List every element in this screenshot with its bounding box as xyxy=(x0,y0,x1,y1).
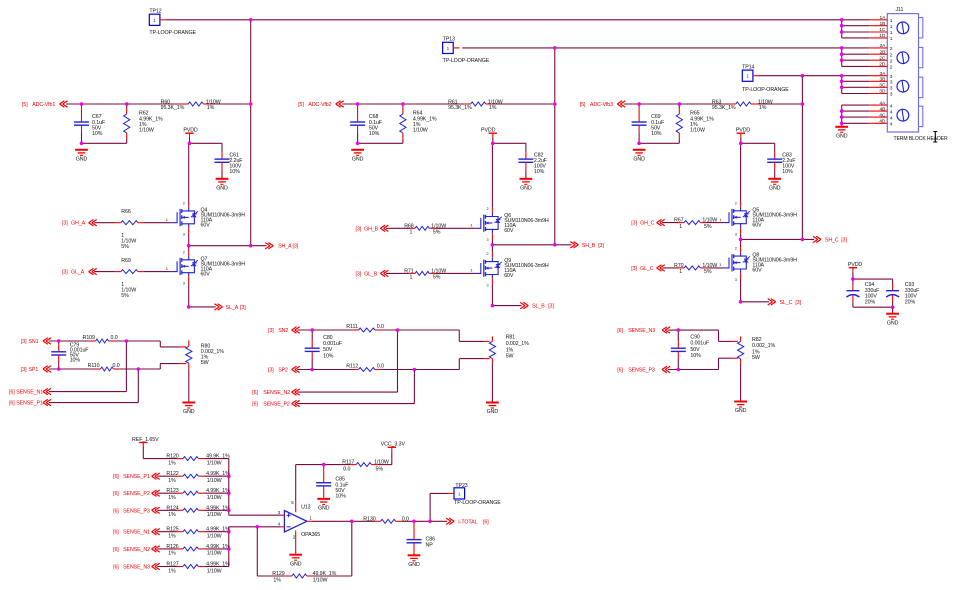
svg-text:R120: R120 xyxy=(166,454,178,460)
power REF_1.65V xyxy=(132,437,159,447)
junction xyxy=(227,509,231,513)
svg-text:1%: 1% xyxy=(168,495,176,501)
transistor Q4 (N-MOSFET) xyxy=(172,201,245,236)
port SENSE_P3 (input) xyxy=(617,366,670,373)
capacitor C61 xyxy=(215,152,230,169)
svg-text:2: 2 xyxy=(890,58,893,64)
resistor R117 xyxy=(350,463,377,467)
svg-text:3C: 3C xyxy=(879,83,886,89)
op-amp U13 OPA365 xyxy=(278,500,313,554)
svg-text:2: 2 xyxy=(735,201,737,205)
svg-text:1%: 1% xyxy=(759,105,767,111)
svg-text:R112: R112 xyxy=(346,364,358,370)
wire kelvin N1 step xyxy=(159,341,161,347)
wire R68 to gate xyxy=(435,227,475,229)
svg-text:TP14: TP14 xyxy=(742,65,754,71)
port SENSE_P1 (input) xyxy=(9,399,51,406)
port SP2 (input) xyxy=(268,366,300,373)
svg-text:1C: 1C xyxy=(879,27,886,33)
port SENSE_P2 (input) xyxy=(113,490,160,497)
wire SENSE_N2 to R126 xyxy=(157,548,177,550)
pin 2B (J11 pin 2) xyxy=(842,49,893,58)
svg-text:R110: R110 xyxy=(88,363,100,369)
svg-text:3: 3 xyxy=(890,86,893,92)
wire xyxy=(638,132,640,143)
wire xyxy=(221,169,223,178)
wire SENSE_N2 riser xyxy=(397,330,399,392)
svg-text:4: 4 xyxy=(890,109,893,115)
junction xyxy=(401,102,405,106)
pin 3C (J11 pin 3) xyxy=(842,83,893,92)
svg-text:GL_A: GL_A xyxy=(71,270,85,276)
svg-text:1%: 1% xyxy=(168,534,176,540)
svg-text:PVDD: PVDD xyxy=(736,128,751,134)
wire xyxy=(719,340,733,342)
wire divider bottom xyxy=(82,142,127,144)
junction xyxy=(840,24,844,28)
svg-text:2D: 2D xyxy=(879,62,886,68)
junction xyxy=(840,122,844,126)
wire R67 to gate xyxy=(706,222,723,224)
junction xyxy=(840,74,844,78)
wire J11 group 4 vertical xyxy=(841,105,843,123)
svg-text:GH_A: GH_A xyxy=(71,221,86,227)
junction xyxy=(137,367,141,371)
junction xyxy=(553,243,557,247)
junction xyxy=(396,328,400,332)
wire xyxy=(311,358,313,369)
wire xyxy=(892,307,894,313)
svg-text:[6]: [6] xyxy=(252,402,258,408)
pin 2A (J11 pin 2) xyxy=(842,43,893,52)
power PVDD phase 2 xyxy=(481,128,497,138)
svg-text:1%: 1% xyxy=(168,460,176,466)
wire Q4 source to SH node xyxy=(188,234,190,246)
wire R117 to VCC xyxy=(378,464,392,466)
svg-text:1/10W: 1/10W xyxy=(207,460,222,466)
svg-text:[6]: [6] xyxy=(113,565,119,571)
wire SENSE_P3 to R124 xyxy=(157,509,177,511)
junction xyxy=(739,142,743,146)
junction xyxy=(227,491,231,495)
svg-text:[3]: [3] xyxy=(548,304,554,310)
svg-text:R130: R130 xyxy=(363,516,375,522)
capacitor C83 xyxy=(767,152,782,169)
svg-text:0.0: 0.0 xyxy=(343,466,350,472)
svg-text:SENSE_N3: SENSE_N3 xyxy=(628,328,655,334)
wire R110 out xyxy=(119,368,160,370)
svg-text:1: 1 xyxy=(153,18,156,23)
junction xyxy=(188,142,192,146)
pin 4A (J11 pin 4) xyxy=(842,100,893,109)
wire SN2 row xyxy=(297,329,352,331)
wire ADC-Vfb1 row xyxy=(66,103,182,105)
svg-text:1/10W: 1/10W xyxy=(139,128,154,134)
svg-text:[5]: [5] xyxy=(580,102,586,108)
wire REF riser xyxy=(142,447,144,459)
junction xyxy=(491,243,495,247)
pin 2C (J11 pin 2) xyxy=(842,55,893,64)
svg-text:R124: R124 xyxy=(166,505,178,511)
svg-text:1: 1 xyxy=(679,269,682,275)
svg-text:GND: GND xyxy=(76,157,88,163)
svg-text:[3]: [3] xyxy=(21,367,27,373)
connector J11 terminal block xyxy=(887,14,923,132)
wire SH node to Q9 drain xyxy=(491,245,493,253)
junction xyxy=(412,520,416,524)
wire xyxy=(311,330,313,341)
wire SL phase 3 xyxy=(741,301,769,303)
resistor R124 xyxy=(177,508,204,512)
svg-text:[3]: [3] xyxy=(795,300,801,306)
svg-text:2: 2 xyxy=(183,201,185,205)
svg-text:SENSE_N3: SENSE_N3 xyxy=(123,565,150,571)
port I-TOTAL (output) xyxy=(446,518,489,525)
svg-text:GND: GND xyxy=(487,409,499,415)
svg-text:SL_C: SL_C xyxy=(780,300,793,306)
svg-text:1/10W: 1/10W xyxy=(207,568,222,574)
wire SH phase 3 xyxy=(741,238,815,240)
svg-text:[6]: [6] xyxy=(113,491,119,497)
wire U13 V+ riser xyxy=(295,465,297,501)
resistor R64 xyxy=(400,108,406,139)
resistor R112 xyxy=(353,368,381,372)
svg-text:0.0: 0.0 xyxy=(113,363,120,369)
svg-text:2A: 2A xyxy=(880,43,887,49)
ground (bulk caps) xyxy=(886,314,899,327)
capacitor C68 xyxy=(350,104,365,133)
wire SENSE_N1 riser xyxy=(125,341,127,392)
port SENSE_N3 (input) xyxy=(113,563,160,570)
ground (under C61) xyxy=(216,179,229,192)
ground (under C69) xyxy=(633,150,646,163)
transistor Q7 (N-MOSFET) xyxy=(172,250,245,285)
svg-text:10%: 10% xyxy=(323,353,334,359)
wire xyxy=(678,104,680,108)
capacitor C90 xyxy=(671,341,686,358)
svg-text:1: 1 xyxy=(447,46,450,51)
svg-text:10%: 10% xyxy=(782,169,793,175)
port SENSE_N2 (input) xyxy=(113,546,160,553)
svg-text:SENSE_P2: SENSE_P2 xyxy=(263,402,290,408)
svg-text:1/10W: 1/10W xyxy=(207,495,222,501)
svg-text:[3]: [3] xyxy=(598,243,604,249)
svg-text:[6]: [6] xyxy=(9,401,15,407)
wire xyxy=(160,363,179,365)
wire GH_C to R67 xyxy=(662,222,678,224)
svg-text:SN2: SN2 xyxy=(278,328,288,334)
wire PVDD rail to Q6 drain xyxy=(491,143,493,207)
wire xyxy=(58,341,60,345)
svg-text:1B: 1B xyxy=(880,21,886,27)
svg-text:[3]: [3] xyxy=(62,221,68,227)
transistor Q9 (N-MOSFET) xyxy=(475,252,548,287)
svg-text:2: 2 xyxy=(487,207,489,211)
svg-text:TP-LOOP-ORANGE: TP-LOOP-ORANGE xyxy=(443,58,490,64)
wire xyxy=(525,143,527,152)
svg-text:10%: 10% xyxy=(534,169,545,175)
svg-text:[5]: [5] xyxy=(298,102,304,108)
svg-text:95.3K_1%: 95.3K_1% xyxy=(161,105,185,111)
junction xyxy=(840,86,844,90)
port SENSE_N3 (input) xyxy=(617,327,670,334)
svg-text:[3]: [3] xyxy=(62,270,68,276)
wire R120 to bus xyxy=(204,458,228,460)
ground (under C82) xyxy=(520,179,533,192)
junction xyxy=(739,238,743,242)
svg-text:GL_C: GL_C xyxy=(640,266,654,272)
svg-text:SH_B: SH_B xyxy=(582,243,596,249)
pin 4B (J11 pin 4) xyxy=(842,106,893,115)
svg-text:1%: 1% xyxy=(168,478,176,484)
resistor R110 xyxy=(95,367,120,371)
wire PVDD rail to Q4 drain xyxy=(188,143,190,202)
svg-text:4A: 4A xyxy=(880,100,887,106)
resistor R80 xyxy=(186,340,192,369)
wire xyxy=(221,143,223,152)
wire R123 to bus xyxy=(204,492,228,494)
wire xyxy=(160,346,179,348)
capacitor C85 xyxy=(316,465,331,498)
svg-text:5%: 5% xyxy=(433,275,441,281)
svg-text:2: 2 xyxy=(183,250,185,254)
resistor R130 xyxy=(375,519,402,523)
wire REF to R120 xyxy=(143,458,177,460)
svg-text:I-TOTAL: I-TOTAL xyxy=(458,519,477,525)
resistor R66 xyxy=(115,221,144,225)
svg-text:[3]: [3] xyxy=(356,226,362,232)
svg-text:2: 2 xyxy=(890,52,893,58)
wire PVDD rail to Q5 drain xyxy=(740,143,742,202)
svg-text:50V: 50V xyxy=(690,347,700,353)
svg-text:[3]: [3] xyxy=(268,328,274,334)
wire SENSE_N2 row xyxy=(297,391,397,393)
junction xyxy=(356,142,360,146)
ground (under C68) xyxy=(351,150,364,163)
wire U13 output xyxy=(312,520,375,522)
svg-text:1%: 1% xyxy=(489,105,497,111)
wire R111 out xyxy=(381,329,459,331)
svg-text:0.002_1%: 0.002_1% xyxy=(506,341,529,347)
svg-text:PVDD: PVDD xyxy=(848,262,863,268)
svg-text:0.002_1%: 0.002_1% xyxy=(752,343,775,349)
resistor R68 xyxy=(409,226,435,230)
resistor R67 xyxy=(678,221,706,225)
svg-text:SENSE_P2: SENSE_P2 xyxy=(123,491,150,497)
svg-text:5%: 5% xyxy=(704,224,712,230)
wire xyxy=(740,137,742,143)
port SN1 (input) xyxy=(21,338,51,345)
svg-text:SENSE_N2: SENSE_N2 xyxy=(123,547,150,553)
wire phase-B output rail xyxy=(554,48,556,245)
resistor R127 xyxy=(177,565,204,569)
svg-text:1/10W: 1/10W xyxy=(207,478,222,484)
wire V+ row xyxy=(296,464,324,466)
junction xyxy=(187,244,191,248)
wire non-inverting bus xyxy=(228,459,230,516)
pin 1C (J11 pin 1) xyxy=(842,27,893,36)
test point TP23 xyxy=(448,488,465,499)
wire xyxy=(313,575,352,577)
junction xyxy=(310,328,314,332)
svg-text:GND: GND xyxy=(352,157,364,163)
wire xyxy=(459,358,484,360)
svg-text:U13: U13 xyxy=(301,505,311,511)
svg-text:ADC-Vfb3: ADC-Vfb3 xyxy=(590,102,613,108)
svg-text:1: 1 xyxy=(746,74,749,79)
wire GL_A to R69 xyxy=(94,271,115,273)
svg-text:60V: 60V xyxy=(504,273,514,279)
wire SH node to Q7 drain xyxy=(188,246,190,251)
svg-text:1: 1 xyxy=(890,18,893,24)
junction xyxy=(677,368,681,372)
svg-text:[3]: [3] xyxy=(293,244,299,250)
svg-text:1%: 1% xyxy=(168,568,176,574)
wire xyxy=(58,362,60,369)
svg-text:10%: 10% xyxy=(335,494,346,500)
svg-text:GND: GND xyxy=(183,409,195,415)
junction xyxy=(678,102,682,106)
svg-text:TERM BLOCK HEADER: TERM BLOCK HEADER xyxy=(894,136,948,142)
svg-text:3: 3 xyxy=(890,80,893,86)
svg-text:[3]: [3] xyxy=(268,368,274,374)
capacitor C94 (polarized) xyxy=(846,284,859,301)
svg-text:3D: 3D xyxy=(879,89,886,95)
junction xyxy=(227,530,231,534)
junction xyxy=(227,474,231,478)
wire SENSE_P1 row xyxy=(49,402,139,404)
ground (under R81) xyxy=(486,403,499,416)
junction xyxy=(356,102,360,106)
svg-text:3: 3 xyxy=(735,278,737,282)
resistor R82 xyxy=(738,336,744,364)
svg-text:4D: 4D xyxy=(879,119,886,125)
svg-text:GND: GND xyxy=(216,186,228,192)
wire to rail 2 xyxy=(492,103,555,105)
junction xyxy=(249,102,253,106)
junction xyxy=(840,80,844,84)
wire J11 group 3 vertical xyxy=(841,76,843,94)
svg-text:SENSE_N2: SENSE_N2 xyxy=(263,390,290,396)
wire R70 to gate xyxy=(706,267,723,269)
svg-text:1%: 1% xyxy=(168,551,176,557)
svg-text:10%: 10% xyxy=(92,131,103,137)
wire SL phase 1 xyxy=(189,306,216,308)
svg-text:PVDD: PVDD xyxy=(481,128,496,134)
wire R122 to bus xyxy=(204,475,228,477)
port SL_C (output) xyxy=(768,299,802,306)
wire SENSE_N3 to R127 xyxy=(157,566,177,568)
svg-text:SENSE_N1: SENSE_N1 xyxy=(16,390,43,396)
wire xyxy=(402,139,404,143)
power PVDD phase 1 xyxy=(183,128,198,138)
svg-text:GND: GND xyxy=(633,157,645,163)
wire xyxy=(189,137,191,143)
junction xyxy=(840,115,844,119)
resistor R123 xyxy=(177,491,204,495)
pin 2D (J11 pin 2) xyxy=(842,62,893,71)
junction xyxy=(801,102,805,106)
svg-text:TP-LOOP-ORANGE: TP-LOOP-ORANGE xyxy=(742,87,789,93)
resistor R69 xyxy=(115,270,144,274)
junction xyxy=(677,328,681,332)
wire xyxy=(257,575,286,577)
port SL_B (output) xyxy=(520,302,554,309)
wire PVDD to bypass xyxy=(493,142,526,144)
resistor R62 xyxy=(124,108,130,139)
wire xyxy=(678,139,680,143)
svg-text:GND: GND xyxy=(318,506,330,512)
junction xyxy=(322,463,326,467)
svg-text:R123: R123 xyxy=(166,488,178,494)
wire xyxy=(126,139,128,143)
svg-text:R129: R129 xyxy=(272,571,284,577)
capacitor C93 (polarized) xyxy=(886,284,899,301)
svg-text:10%: 10% xyxy=(369,131,380,137)
svg-text:[6]: [6] xyxy=(483,519,489,525)
junction xyxy=(840,30,844,34)
wire xyxy=(492,137,494,143)
svg-text:[3]: [3] xyxy=(631,221,637,227)
svg-text:TP23: TP23 xyxy=(455,483,467,489)
svg-text:[6]: [6] xyxy=(113,547,119,553)
svg-text:GND: GND xyxy=(836,134,848,140)
svg-text:95.3K_1%: 95.3K_1% xyxy=(712,105,736,111)
svg-text:R125: R125 xyxy=(166,527,178,533)
svg-text:60V: 60V xyxy=(504,228,514,234)
svg-text:10%: 10% xyxy=(651,131,662,137)
junction xyxy=(428,520,432,524)
svg-text:[6]: [6] xyxy=(113,474,119,480)
svg-text:5W: 5W xyxy=(201,360,209,366)
junction xyxy=(187,305,191,309)
svg-text:3: 3 xyxy=(487,283,489,287)
wire to -input xyxy=(229,526,281,528)
port GL_A (input) xyxy=(62,268,97,275)
wire GH_A to R66 xyxy=(94,222,115,224)
test point TP13 xyxy=(443,42,460,53)
wire SENSE_P2 row xyxy=(297,403,414,405)
port SENSE_P2 (input) xyxy=(252,400,299,407)
junction xyxy=(249,244,253,248)
svg-text:1: 1 xyxy=(410,275,413,281)
wire SENSE_P1 to R122 xyxy=(157,475,177,477)
svg-text:[6]: [6] xyxy=(113,508,119,514)
wire divider bottom xyxy=(639,142,679,144)
svg-text:4C: 4C xyxy=(879,112,886,118)
ground (under C83) xyxy=(768,179,781,192)
svg-text:2C: 2C xyxy=(879,55,886,61)
svg-text:[3]: [3] xyxy=(356,271,362,277)
svg-text:5W: 5W xyxy=(506,354,514,360)
capacitor C69 xyxy=(632,104,647,133)
svg-text:2: 2 xyxy=(735,247,737,251)
wire R71 to gate xyxy=(435,272,475,274)
wire R112 out xyxy=(381,369,459,371)
svg-text:R117: R117 xyxy=(342,460,354,466)
wire SENSE_N3 row xyxy=(668,329,719,331)
svg-text:1%: 1% xyxy=(168,512,176,518)
wire phase-C output rail xyxy=(801,76,803,240)
transistor Q8 (N-MOSFET) xyxy=(724,247,798,282)
svg-text:GND: GND xyxy=(887,320,899,326)
wire SENSE_P2 to R123 xyxy=(157,492,177,494)
svg-text:1/10W: 1/10W xyxy=(207,551,222,557)
resistor R109 xyxy=(90,339,115,343)
junction xyxy=(80,102,84,106)
wire xyxy=(402,104,404,108)
wire GL_C to R70 xyxy=(662,267,678,269)
